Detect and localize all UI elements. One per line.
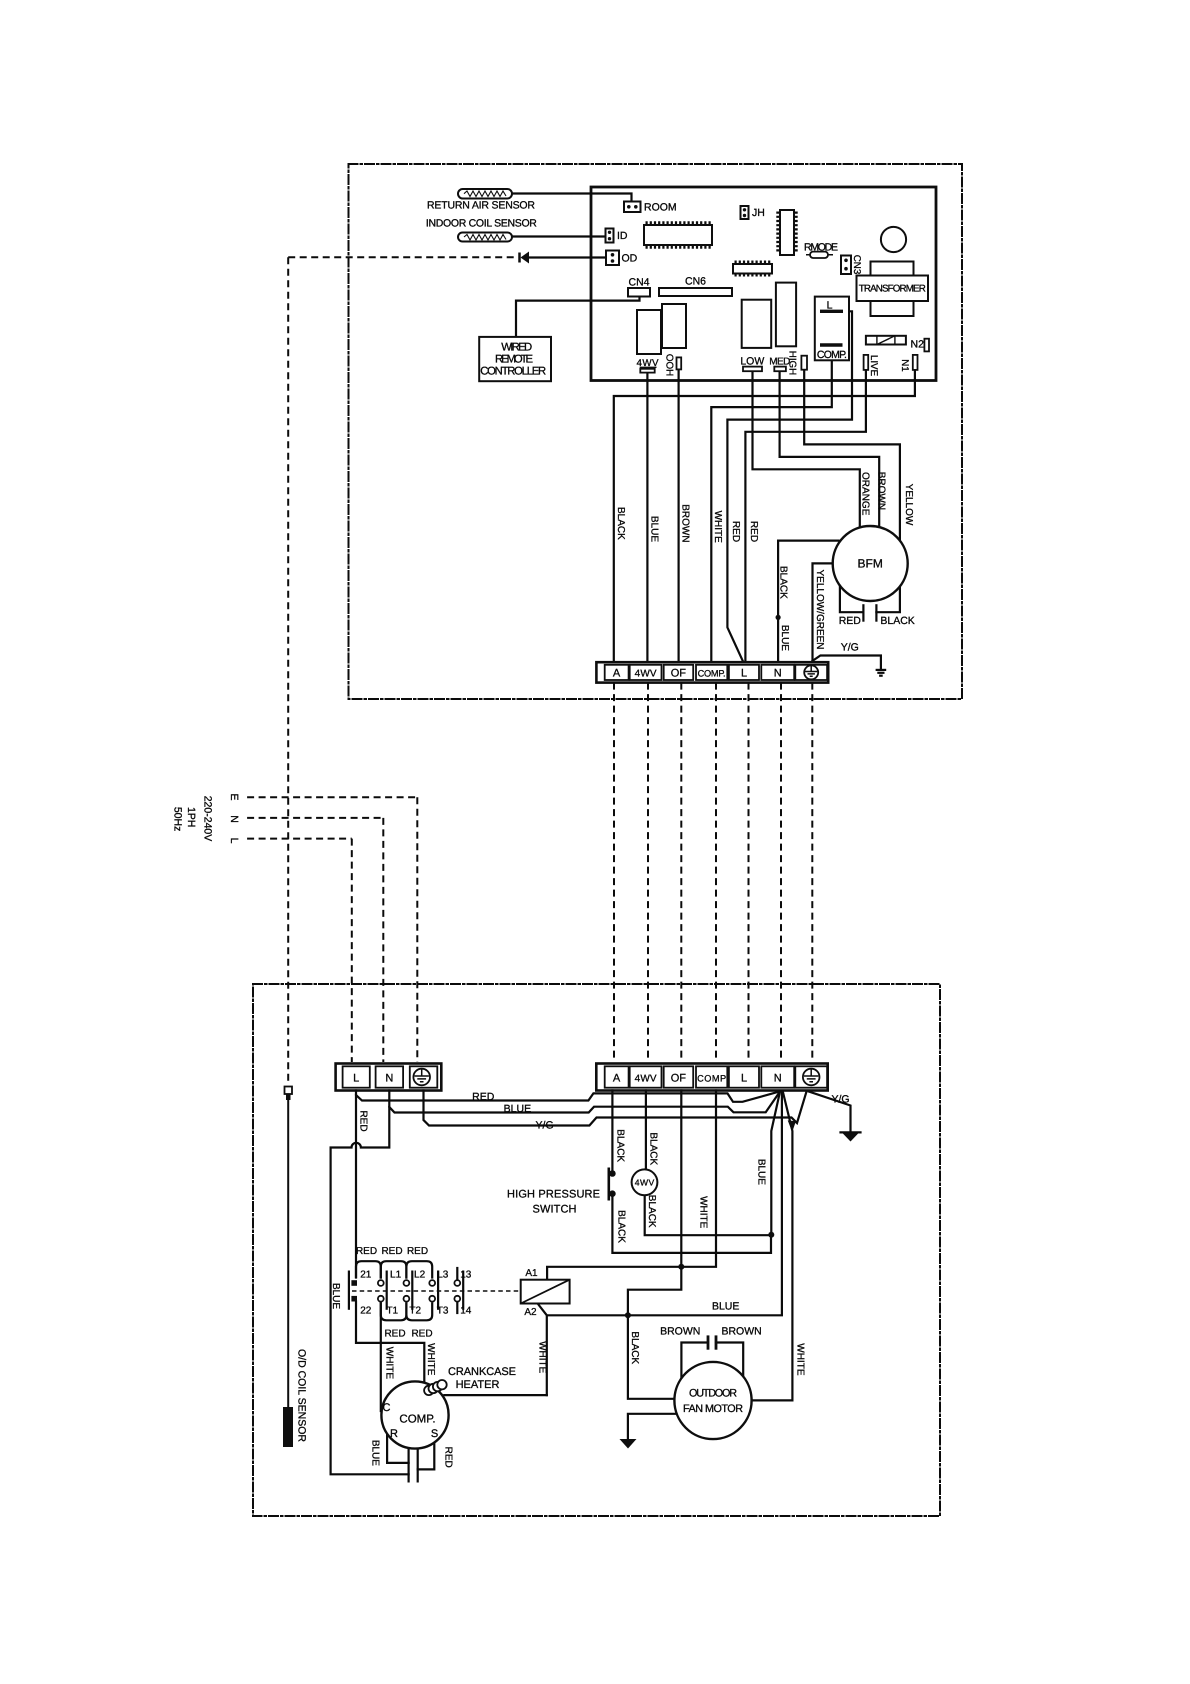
svg-text:A1: A1: [525, 1268, 538, 1279]
svg-text:WIRED: WIRED: [501, 342, 532, 354]
svg-text:L: L: [827, 300, 833, 312]
svg-text:WHITE: WHITE: [697, 1196, 708, 1229]
svg-text:YELLOW: YELLOW: [903, 484, 914, 526]
svg-text:4WV: 4WV: [637, 358, 659, 369]
svg-text:REMOTE: REMOTE: [495, 354, 533, 366]
svg-text:4WV: 4WV: [635, 1178, 655, 1188]
svg-text:N: N: [228, 815, 240, 823]
svg-text:R: R: [390, 1428, 398, 1440]
svg-text:CN3: CN3: [851, 255, 862, 275]
svg-text:RED: RED: [356, 1246, 377, 1257]
svg-text:WHITE: WHITE: [712, 511, 723, 544]
svg-text:COMP.: COMP.: [698, 668, 726, 678]
svg-text:RED: RED: [730, 521, 741, 542]
svg-text:BLUE: BLUE: [755, 1159, 766, 1185]
svg-text:LOW: LOW: [740, 356, 764, 368]
svg-text:L1: L1: [390, 1270, 402, 1281]
svg-text:L: L: [228, 838, 240, 844]
svg-text:4WV: 4WV: [635, 669, 657, 680]
svg-text:14: 14: [460, 1306, 472, 1317]
svg-text:BLACK: BLACK: [646, 1195, 657, 1228]
svg-text:1PH: 1PH: [185, 807, 197, 827]
svg-text:BLUE: BLUE: [504, 1103, 531, 1115]
svg-text:N2: N2: [911, 339, 925, 351]
svg-text:Y/G: Y/G: [841, 642, 859, 654]
svg-text:OD: OD: [622, 253, 638, 265]
svg-text:HIGH PRESSURE: HIGH PRESSURE: [507, 1189, 600, 1201]
svg-text:COMP: COMP: [697, 1073, 726, 1083]
svg-text:CN4: CN4: [628, 277, 649, 289]
svg-text:COMP.: COMP.: [817, 349, 847, 361]
svg-text:CN6: CN6: [685, 276, 706, 288]
svg-text:RETURN AIR SENSOR: RETURN AIR SENSOR: [427, 200, 535, 212]
svg-text:BLUE: BLUE: [712, 1301, 739, 1313]
svg-text:22: 22: [360, 1306, 372, 1317]
svg-text:TRANSFORMER: TRANSFORMER: [859, 284, 926, 295]
svg-text:N1: N1: [899, 359, 910, 372]
svg-text:RED: RED: [442, 1447, 453, 1468]
svg-text:RED: RED: [407, 1246, 428, 1257]
svg-text:RED: RED: [358, 1110, 369, 1131]
svg-text:WHITE: WHITE: [537, 1341, 548, 1374]
svg-text:OOH: OOH: [663, 354, 674, 376]
svg-text:Y/G: Y/G: [831, 1094, 849, 1106]
svg-text:N: N: [385, 1073, 393, 1085]
svg-text:13: 13: [460, 1270, 472, 1281]
svg-text:BLACK: BLACK: [629, 1331, 640, 1364]
svg-text:T1: T1: [386, 1306, 398, 1317]
svg-text:4WV: 4WV: [635, 1074, 657, 1085]
svg-text:WHITE: WHITE: [384, 1347, 395, 1380]
svg-text:L: L: [741, 668, 747, 680]
svg-text:BLACK: BLACK: [778, 566, 789, 599]
svg-text:BLACK: BLACK: [648, 1132, 659, 1165]
svg-text:BLACK: BLACK: [615, 1210, 626, 1243]
svg-text:L: L: [353, 1073, 359, 1085]
svg-text:OF: OF: [671, 668, 687, 680]
svg-text:COMP.: COMP.: [399, 1414, 435, 1426]
svg-text:HIGH: HIGH: [786, 351, 797, 376]
svg-text:S: S: [431, 1428, 438, 1440]
svg-text:BROWN: BROWN: [660, 1326, 700, 1338]
svg-text:OUTDOOR: OUTDOOR: [689, 1387, 737, 1399]
svg-text:T2: T2: [409, 1306, 421, 1317]
svg-text:WHITE: WHITE: [795, 1343, 806, 1376]
svg-text:OF: OF: [671, 1073, 687, 1085]
svg-text:BFM: BFM: [858, 557, 883, 571]
svg-text:YELLOW/GREEN: YELLOW/GREEN: [814, 569, 825, 649]
svg-text:BLACK: BLACK: [615, 1129, 626, 1162]
svg-text:220-240V: 220-240V: [202, 796, 214, 842]
svg-text:BLUE: BLUE: [330, 1283, 341, 1309]
svg-text:RED: RED: [381, 1246, 402, 1257]
svg-text:ID: ID: [617, 230, 628, 242]
svg-text:LIVE: LIVE: [868, 355, 879, 377]
svg-text:C: C: [383, 1402, 391, 1414]
svg-text:A: A: [613, 668, 621, 680]
svg-text:BROWN: BROWN: [679, 504, 690, 542]
svg-text:RED: RED: [472, 1091, 495, 1103]
svg-text:FAN MOTOR: FAN MOTOR: [683, 1403, 743, 1415]
svg-text:A: A: [613, 1073, 621, 1085]
svg-text:CONTROLLER: CONTROLLER: [480, 366, 546, 378]
svg-text:RMODE: RMODE: [804, 242, 838, 254]
svg-text:E: E: [228, 793, 240, 800]
svg-text:SWITCH: SWITCH: [533, 1204, 577, 1216]
svg-text:L2: L2: [414, 1270, 426, 1281]
svg-text:BLUE: BLUE: [369, 1440, 380, 1466]
svg-text:INDOOR COIL SENSOR: INDOOR COIL SENSOR: [426, 218, 537, 230]
svg-text:50Hz: 50Hz: [171, 807, 183, 832]
svg-text:L3: L3: [437, 1270, 449, 1281]
svg-text:Y/G: Y/G: [536, 1120, 554, 1132]
svg-text:BROWN: BROWN: [721, 1326, 761, 1338]
svg-text:BLUE: BLUE: [779, 625, 790, 651]
svg-text:T3: T3: [437, 1306, 449, 1317]
svg-text:HEATER: HEATER: [456, 1379, 500, 1391]
svg-text:BROWN: BROWN: [876, 472, 887, 510]
svg-text:BLACK: BLACK: [615, 507, 626, 540]
svg-text:RED: RED: [839, 615, 862, 627]
svg-text:L: L: [741, 1073, 747, 1085]
svg-text:RED: RED: [748, 521, 759, 542]
svg-text:N: N: [774, 1073, 782, 1085]
svg-text:ROOM: ROOM: [644, 202, 677, 214]
svg-text:A2: A2: [524, 1307, 537, 1318]
svg-text:BLACK: BLACK: [880, 615, 914, 627]
svg-text:WHITE: WHITE: [425, 1343, 436, 1376]
svg-text:RED: RED: [411, 1329, 432, 1340]
svg-text:O/D COIL SENSOR: O/D COIL SENSOR: [296, 1349, 308, 1442]
svg-text:N: N: [774, 668, 782, 680]
svg-text:RED: RED: [384, 1329, 405, 1340]
svg-text:21: 21: [360, 1270, 372, 1281]
svg-text:JH: JH: [752, 207, 765, 219]
svg-text:CRANKCASE: CRANKCASE: [448, 1366, 516, 1378]
svg-text:ORANGE: ORANGE: [860, 472, 871, 516]
svg-text:BLUE: BLUE: [648, 516, 659, 542]
